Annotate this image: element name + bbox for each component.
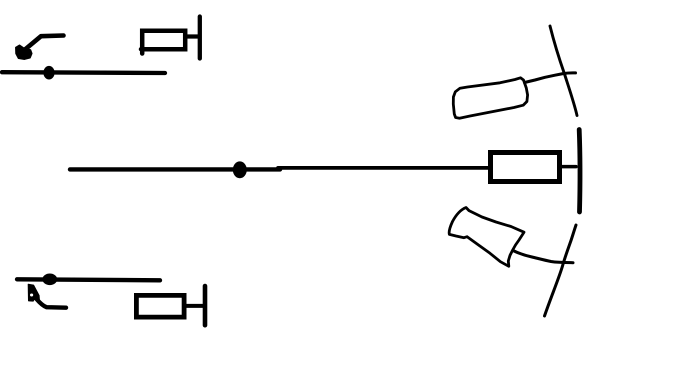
wire W2 (R1 to terminal bar) xyxy=(186,34,199,38)
wire W1 (top-left horizontal) xyxy=(2,70,165,75)
arc segment S3 (bottom) xyxy=(545,225,577,316)
terminal bar T3 xyxy=(203,286,208,325)
node A (junction dot on W1) xyxy=(43,66,54,80)
resistor R2 (middle box) xyxy=(491,153,560,182)
wire W5 (R2 to terminal bar) xyxy=(562,165,577,169)
terminal bar T2 (middle arc segment) xyxy=(577,130,583,213)
arrow A1 (top-left pointer) xyxy=(16,36,64,60)
wire W6 (B1 to arc S1, wavy) xyxy=(525,73,576,83)
wire W3 (middle long horizontal) xyxy=(70,167,280,171)
wire W4 (middle horizontal, right half) xyxy=(278,166,489,170)
wire W8 (bottom-left horizontal) xyxy=(17,279,160,280)
resistor R1 (top-left box) xyxy=(141,31,185,54)
resistor R3 (bottom-left box) xyxy=(136,295,184,317)
node B (junction dot on W3) xyxy=(233,161,247,178)
arc segment S1 (top) xyxy=(550,26,577,116)
node C (junction dot on W8) xyxy=(42,274,57,286)
wire W9 (R3 to terminal bar) xyxy=(185,304,203,308)
brush B2 (bottom tilted box) xyxy=(449,208,524,267)
terminal bar T1 xyxy=(198,17,202,59)
brush B1 (top tilted box) xyxy=(453,78,527,118)
wire W7 (B2 to arc S3, wavy) xyxy=(513,251,573,263)
arrow A2 (bottom-left pointer) xyxy=(28,284,66,307)
